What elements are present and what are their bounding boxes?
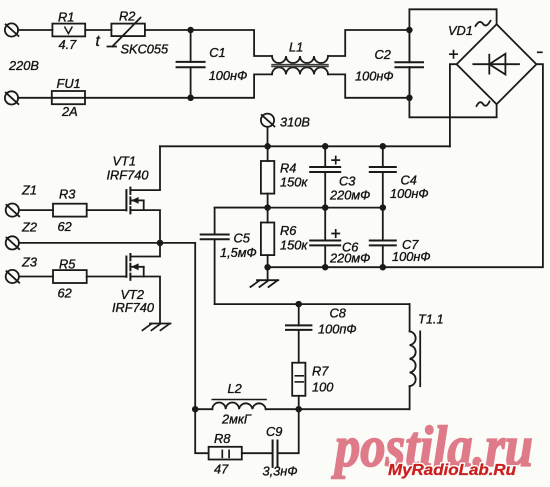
wire X2 to FU1 <box>18 97 52 99</box>
node dot L2 right <box>295 406 302 413</box>
wire R8 to C9 <box>242 452 273 454</box>
resistor R8 <box>209 447 242 460</box>
terminal Z2 <box>6 236 20 249</box>
resistor R6 <box>261 223 274 256</box>
transformer T1.1 winding <box>410 304 421 409</box>
transistor VT1 <box>126 188 143 214</box>
svg-text:T1.1: T1.1 <box>418 312 444 327</box>
node dot bus C4 <box>380 143 387 150</box>
terminal X2 bottom AC input <box>5 91 19 104</box>
node dot bus C3 <box>322 143 329 150</box>
terminal Z1 <box>6 204 20 217</box>
svg-text:62: 62 <box>58 219 72 234</box>
svg-text:310В: 310В <box>280 115 310 130</box>
wire VT1 drain to bus <box>130 146 160 190</box>
wire bridge plus to DC bus <box>450 64 457 146</box>
resistor R4 <box>261 161 274 194</box>
svg-text:100нФ: 100нФ <box>209 68 248 83</box>
svg-text:VT1: VT1 <box>113 154 136 169</box>
node dot C8 top <box>295 301 302 308</box>
svg-text:C1: C1 <box>209 45 225 60</box>
capacitor C1 <box>177 30 205 98</box>
svg-text:VD1: VD1 <box>448 23 473 38</box>
capacitor C6 electrolytic <box>310 208 340 268</box>
svg-text:47: 47 <box>214 462 229 477</box>
wire VT1 source to mid node <box>130 210 160 243</box>
svg-text:2мкГ: 2мкГ <box>221 412 252 427</box>
wire down to R8 branch <box>195 409 208 453</box>
svg-text:100нФ: 100нФ <box>390 186 429 201</box>
wire VT2 drain to mid node <box>130 243 160 257</box>
wire Z2 to output node <box>19 243 195 409</box>
svg-text:R6: R6 <box>280 223 297 238</box>
node dot gnd C6 <box>322 264 329 271</box>
resistor R5 <box>53 270 87 283</box>
wire C5 to C8 bus <box>215 303 410 305</box>
wire X1 to R1 <box>18 29 52 31</box>
svg-text:R2: R2 <box>119 9 135 24</box>
ground under R6 <box>251 280 279 287</box>
wire bridge minus down right edge <box>383 64 543 267</box>
svg-text:100: 100 <box>312 380 334 395</box>
svg-text:C8: C8 <box>330 306 347 321</box>
wire L1 top to C2 <box>328 30 409 56</box>
svg-text:C2: C2 <box>375 47 391 62</box>
svg-text:62: 62 <box>58 286 72 301</box>
svg-text:t: t <box>96 33 101 50</box>
capacitor C7 <box>370 208 396 268</box>
node dot VT junction <box>157 240 164 247</box>
wire R2 to C1 node <box>145 30 272 56</box>
wire R6 bottom to gnd bus <box>267 255 269 267</box>
terminal X1 top AC input <box>5 23 19 36</box>
wire C9 up to output node <box>278 409 299 453</box>
plus sign bridge <box>449 50 458 59</box>
capacitor C2 <box>395 30 423 98</box>
svg-text:L2: L2 <box>228 381 242 396</box>
svg-text:MyRadioLab.Ru: MyRadioLab.Ru <box>388 462 516 479</box>
wire R7 to output bus <box>298 396 300 409</box>
wire Z1 to R3 <box>19 209 53 211</box>
node dot L2 left <box>192 406 199 413</box>
svg-text:SKC055: SKC055 <box>121 42 170 57</box>
wire ground bus <box>268 266 383 268</box>
svg-text:IRF740: IRF740 <box>107 168 150 183</box>
wire R4 bottom to mid bus <box>267 194 269 208</box>
capacitor C5 <box>201 208 268 305</box>
bridge rectifier VD1 <box>457 24 537 104</box>
svg-text:R7: R7 <box>312 364 329 379</box>
wire R1 to R2 <box>85 29 111 31</box>
wire mid bus to R6 top <box>267 208 269 223</box>
wire VT2 source to ground <box>130 277 160 324</box>
svg-text:C3: C3 <box>339 174 355 189</box>
AC squiggle top <box>476 21 491 26</box>
wire R6 node to ground symbol <box>267 267 269 280</box>
svg-text:R4: R4 <box>280 161 296 176</box>
node dot mid C4 <box>380 204 387 211</box>
svg-text:220мФ: 220мФ <box>329 251 370 266</box>
wire Z3 to R5 <box>19 276 53 278</box>
wire R3 to VT1 gate <box>87 209 126 211</box>
wire C2 bottom to bridge AC2 <box>409 67 496 117</box>
inductor L1 common-mode choke <box>272 56 328 74</box>
svg-text:220В: 220В <box>8 58 39 73</box>
svg-text:Z3: Z3 <box>21 255 37 270</box>
svg-text:R3: R3 <box>59 187 75 202</box>
svg-text:150к: 150к <box>280 175 308 190</box>
capacitor C8 <box>286 304 311 363</box>
wire FU1 to C1 bottom to L1 <box>85 74 272 97</box>
node dot C2 bottom <box>406 95 413 102</box>
AC squiggle bottom <box>477 102 490 107</box>
node dot C2 top <box>406 27 413 34</box>
svg-text:IRF740: IRF740 <box>112 300 155 315</box>
wire L1 bottom to C2 <box>328 74 409 97</box>
svg-text:1,5мФ: 1,5мФ <box>220 245 257 260</box>
svg-text:2A: 2A <box>61 104 78 119</box>
wire 310V terminal to DC bus <box>267 127 269 146</box>
svg-text:FU1: FU1 <box>57 76 81 91</box>
svg-text:R1: R1 <box>58 10 74 25</box>
terminal Z3 <box>6 270 20 283</box>
svg-text:4.7: 4.7 <box>59 37 78 52</box>
resistor R3 <box>53 204 87 217</box>
node dot gnd R6 <box>264 264 271 271</box>
node dot mid R6 <box>264 204 271 211</box>
inductor L2 <box>195 400 299 410</box>
fuse FU1 <box>52 91 85 104</box>
terminal 310V <box>261 114 275 127</box>
node dot bus R4 <box>264 143 271 150</box>
wire bus to R4 top <box>267 146 269 161</box>
svg-text:L1: L1 <box>289 40 303 55</box>
capacitor C9 <box>273 441 278 467</box>
wire DC plus bus <box>160 145 450 147</box>
wire T1.1 bottom bus <box>299 408 410 410</box>
node dot C1 top <box>187 27 194 34</box>
svg-text:100нФ: 100нФ <box>392 249 431 264</box>
node dot gnd C7 <box>380 264 387 271</box>
svg-text:R8: R8 <box>214 431 231 446</box>
svg-text:Z1: Z1 <box>21 183 37 198</box>
resistor R1 <box>52 24 85 37</box>
wire R5 to VT2 gate <box>87 276 126 278</box>
svg-text:R5: R5 <box>59 257 76 272</box>
minus sign bridge <box>537 51 543 53</box>
ground under VT2 <box>143 324 171 331</box>
svg-text:C5: C5 <box>234 231 251 246</box>
svg-text:C9: C9 <box>266 424 282 439</box>
svg-text:Z2: Z2 <box>21 220 37 235</box>
capacitor C3 electrolytic <box>310 146 340 207</box>
svg-text:220мФ: 220мФ <box>329 188 370 203</box>
wire C2 top to bridge AC1 <box>409 9 496 61</box>
resistor R7 <box>292 363 305 396</box>
node dot C1 bottom <box>187 95 194 102</box>
node dot mid C3 <box>322 204 329 211</box>
svg-text:3,3нФ: 3,3нФ <box>263 464 298 479</box>
capacitor C4 <box>370 146 396 207</box>
wire middle bus <box>215 207 383 209</box>
svg-text:100нФ: 100нФ <box>355 69 394 84</box>
transistor VT2 <box>126 254 143 280</box>
svg-text:150к: 150к <box>280 238 308 253</box>
svg-text:100пФ: 100пФ <box>318 322 357 337</box>
thermistor R2 <box>108 18 145 47</box>
